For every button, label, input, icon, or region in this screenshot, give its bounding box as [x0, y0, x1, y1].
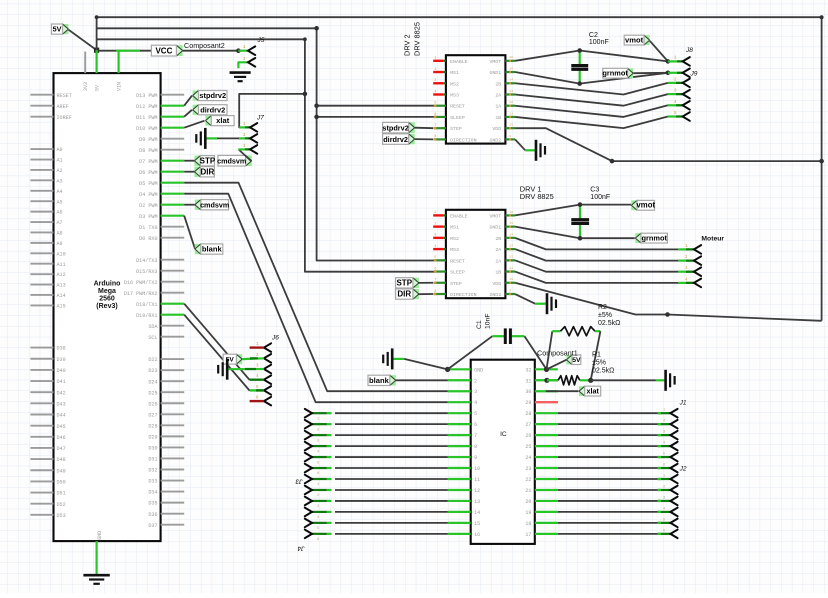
- svg-text:SDA: SDA: [148, 324, 158, 330]
- net label dirdrv2 at DRV2 DIRECTION: [383, 134, 434, 145]
- svg-text:MS2: MS2: [450, 236, 459, 242]
- svg-text:±5%: ±5%: [598, 312, 612, 319]
- text J1: [679, 400, 687, 407]
- svg-text:10: 10: [509, 124, 513, 127]
- net label cmdsvm (J7 pin3 side): [217, 149, 252, 166]
- wire D18 to J6 pin4: [184, 304, 249, 380]
- net label cmdsvm (D2): [184, 200, 229, 210]
- svg-text:SLEEP: SLEEP: [450, 270, 465, 276]
- svg-text:C1: C1: [476, 320, 483, 329]
- svg-text:D49: D49: [57, 468, 66, 474]
- text J5: [257, 37, 265, 44]
- svg-text:Arduino: Arduino: [94, 281, 121, 288]
- supply label 5V Composant1: [547, 355, 582, 370]
- svg-text:10: 10: [509, 278, 513, 281]
- svg-text:12: 12: [509, 101, 513, 104]
- svg-text:D22: D22: [148, 357, 157, 363]
- Arduino top pins 3V3 / 5V / VIN: [83, 50, 122, 91]
- svg-text:grnmot: grnmot: [641, 234, 667, 243]
- IC right pin stubs: [535, 369, 558, 534]
- svg-text:VMOT: VMOT: [489, 59, 501, 65]
- svg-text:A6: A6: [57, 210, 63, 216]
- IC DRV 1 (DRV8825): [433, 185, 554, 299]
- svg-text:3: 3: [434, 233, 436, 237]
- svg-text:2A: 2A: [495, 247, 501, 253]
- svg-text:11: 11: [474, 477, 480, 483]
- svg-text:D5 PWM: D5 PWM: [139, 181, 157, 187]
- wire DRV2 VDD to right rail: [515, 128, 824, 163]
- svg-text:DRV 2: DRV 2: [403, 34, 412, 56]
- svg-text:14: 14: [509, 79, 513, 82]
- svg-text:J1: J1: [679, 400, 687, 407]
- svg-text:xlat: xlat: [216, 116, 230, 125]
- svg-text:22: 22: [525, 477, 531, 483]
- Arduino bottom pin GND + wire: [97, 531, 103, 575]
- svg-text:DIR: DIR: [201, 167, 215, 176]
- svg-text:9: 9: [509, 289, 511, 292]
- J6 pin6 stub (unconnected): [250, 400, 264, 402]
- svg-text:stpdrv2: stpdrv2: [382, 123, 408, 132]
- svg-text:7: 7: [434, 123, 436, 127]
- ground right of R1: [666, 370, 675, 391]
- text R2 value: [598, 304, 620, 327]
- svg-text:D19/RX1: D19/RX1: [136, 313, 157, 319]
- svg-text:D46: D46: [57, 435, 66, 441]
- svg-text:1A: 1A: [495, 104, 501, 110]
- supply label vmot (top): [624, 35, 668, 61]
- text J7: [256, 115, 264, 122]
- svg-text:2A: 2A: [495, 92, 501, 98]
- svg-text:D36: D36: [148, 512, 157, 518]
- connector J5 pin 1: [238, 46, 255, 55]
- supply label 5V at J6 pin2: [223, 354, 264, 364]
- ground DRV2 GND2: [536, 140, 545, 161]
- svg-text:D39: D39: [57, 357, 66, 363]
- svg-text:D7 PWM: D7 PWM: [139, 159, 157, 165]
- svg-text:02.5kΩ: 02.5kΩ: [592, 368, 614, 375]
- svg-text:100nF: 100nF: [589, 39, 609, 46]
- svg-text:A9: A9: [57, 241, 63, 247]
- text J8: [685, 47, 693, 54]
- svg-text:grnmot: grnmot: [602, 69, 628, 78]
- svg-text:D32: D32: [148, 468, 157, 474]
- svg-text:1: 1: [434, 210, 436, 214]
- svg-text:RESET: RESET: [450, 104, 465, 110]
- net label STP at DRV1 STEP: [396, 278, 434, 288]
- wires DRV1 2B 2A 1A 1B to Moteur: [515, 238, 701, 287]
- IC Arduino Mega 2560 box: [54, 73, 161, 541]
- connector J8 pin: [668, 57, 690, 66]
- svg-text:VDD: VDD: [492, 281, 501, 287]
- svg-text:D40: D40: [57, 368, 66, 374]
- wire DRV2 GND2 to ground: [515, 139, 535, 150]
- svg-text:5: 5: [434, 255, 436, 259]
- net label blank at IC pin2: [368, 375, 448, 385]
- svg-text:D15/RX3: D15/RX3: [136, 269, 157, 275]
- svg-text:GND: GND: [474, 367, 483, 373]
- net label STP (D7): [184, 156, 216, 166]
- svg-text:15: 15: [509, 222, 513, 225]
- ground at J7 pin2: [196, 128, 205, 149]
- supply label vmot (DRV1): [631, 200, 655, 210]
- text R1 value: [592, 352, 614, 375]
- svg-text:J5: J5: [257, 37, 265, 44]
- svg-text:C3: C3: [590, 187, 599, 194]
- svg-text:20: 20: [525, 499, 531, 505]
- svg-text:31: 31: [525, 378, 531, 384]
- svg-text:GND2: GND2: [489, 137, 501, 143]
- svg-text:D28: D28: [148, 423, 157, 429]
- svg-text:2: 2: [434, 221, 436, 225]
- svg-text:5: 5: [434, 101, 436, 105]
- svg-text:MS3: MS3: [450, 247, 459, 253]
- connectors J1 and J2 pins (IC pins 28..17): [558, 409, 678, 538]
- svg-text:4: 4: [434, 244, 436, 248]
- IC DRV 2 (DRV8825): [403, 22, 516, 144]
- wire D19 to J6 pin5: [184, 315, 249, 391]
- wire D5 to IC pin3: [184, 183, 448, 392]
- wire net line2 (to DRV resets): [97, 28, 436, 260]
- ground at J6 pin3: [218, 359, 264, 380]
- node 5V junction: [94, 48, 99, 53]
- node IC GND junction: [445, 367, 450, 372]
- svg-text:IC: IC: [500, 431, 507, 438]
- svg-text:cmdsvm: cmdsvm: [217, 157, 246, 166]
- svg-text:12: 12: [509, 256, 513, 259]
- connector J7 pin1: [239, 123, 257, 132]
- svg-text:stpdrv2: stpdrv2: [199, 91, 226, 100]
- resistor R2 between 5V node and R1 right node: [547, 327, 601, 381]
- node line2 corner dot: [314, 26, 319, 31]
- svg-text:11: 11: [509, 112, 513, 115]
- svg-text:1B: 1B: [495, 115, 501, 121]
- net label stpdrv2 (D12): [184, 91, 227, 106]
- svg-text:DRV 8825: DRV 8825: [520, 192, 554, 201]
- svg-text:GND1: GND1: [489, 70, 501, 76]
- svg-text:5: 5: [474, 411, 477, 417]
- svg-text:1B: 1B: [495, 270, 501, 276]
- capacitor C1 10nF: [448, 314, 547, 370]
- svg-text:DRV 8825: DRV 8825: [413, 22, 422, 56]
- svg-text:D37: D37: [148, 523, 157, 529]
- net label grnmot (DRV1): [635, 233, 667, 243]
- Arduino right pins D13..D0, D14..SCL, D22..D37: [124, 93, 184, 529]
- svg-text:100nF: 100nF: [590, 194, 610, 201]
- svg-text:D24: D24: [148, 379, 157, 385]
- svg-text:D34: D34: [148, 490, 157, 496]
- svg-text:D31: D31: [148, 457, 157, 463]
- wire DRV2 VMOT - C2 top - J8: [515, 51, 668, 62]
- svg-text:D12 PWM: D12 PWM: [136, 104, 157, 110]
- svg-text:5V: 5V: [53, 25, 62, 34]
- svg-text:SCL: SCL: [148, 335, 157, 341]
- ground below Arduino: [83, 575, 109, 584]
- svg-text:6: 6: [434, 266, 436, 270]
- svg-text:28: 28: [525, 411, 531, 417]
- svg-text:D33: D33: [148, 479, 157, 485]
- wires DRV2 2B 2A 1A 1B to J9 pins: [515, 78, 690, 128]
- svg-text:A12: A12: [57, 272, 66, 278]
- net label grnmot (top): [602, 68, 668, 78]
- svg-text:±5%: ±5%: [592, 360, 606, 367]
- svg-text:R2: R2: [598, 304, 607, 311]
- svg-text:MS3: MS3: [450, 92, 459, 98]
- svg-text:6: 6: [434, 112, 436, 116]
- svg-text:8: 8: [434, 134, 436, 138]
- svg-text:3V3: 3V3: [83, 82, 89, 91]
- wire DRV1 VDD to right rail: [515, 283, 822, 321]
- svg-text:J8: J8: [685, 47, 693, 54]
- svg-text:blank: blank: [369, 376, 390, 385]
- svg-text:D18/TX1: D18/TX1: [136, 302, 157, 308]
- svg-text:D48: D48: [57, 457, 66, 463]
- svg-text:A15: A15: [57, 304, 66, 310]
- svg-text:8: 8: [434, 289, 436, 293]
- svg-text:Composant1: Composant1: [537, 349, 578, 358]
- svg-text:STP: STP: [396, 279, 412, 288]
- svg-text:D25: D25: [148, 390, 157, 396]
- capacitor C2 100nF: [571, 32, 608, 86]
- svg-text:11: 11: [509, 267, 513, 270]
- svg-text:J7: J7: [256, 115, 264, 122]
- ground left of C1: [383, 348, 392, 369]
- svg-text:A7: A7: [57, 220, 63, 226]
- svg-text:30: 30: [525, 389, 531, 395]
- wire DRV1 GND2 to ground: [515, 294, 546, 304]
- svg-text:VMOT: VMOT: [489, 213, 501, 219]
- svg-text:D4 PWM: D4 PWM: [139, 192, 157, 198]
- svg-text:D27: D27: [148, 412, 157, 418]
- svg-text:D50: D50: [57, 480, 66, 486]
- node top-right corner: [820, 15, 824, 19]
- svg-text:2B: 2B: [495, 81, 501, 87]
- connector J5 pin 2: [238, 58, 255, 68]
- svg-text:9: 9: [509, 135, 511, 138]
- svg-text:J9: J9: [690, 71, 698, 78]
- svg-text:6: 6: [474, 422, 477, 428]
- svg-text:4: 4: [474, 400, 477, 406]
- svg-text:D42: D42: [57, 390, 66, 396]
- svg-text:ENABLE: ENABLE: [450, 59, 468, 65]
- svg-text:D13 PWM: D13 PWM: [136, 93, 157, 99]
- svg-text:1A: 1A: [495, 258, 501, 264]
- net label dirdrv2 (D11): [184, 105, 227, 117]
- svg-text:17: 17: [525, 532, 531, 538]
- net label DIR at DRV1 DIRECTION: [396, 289, 434, 299]
- svg-text:A8: A8: [57, 231, 63, 237]
- svg-text:16: 16: [509, 211, 513, 214]
- svg-text:26: 26: [525, 433, 531, 439]
- svg-text:MS1: MS1: [450, 70, 459, 76]
- connector J7 pin2 + wire to ground: [206, 134, 257, 143]
- node J9 junction: [666, 71, 671, 76]
- svg-text:Composant2: Composant2: [184, 41, 225, 50]
- svg-text:MS1: MS1: [450, 225, 459, 231]
- svg-text:23: 23: [525, 466, 531, 472]
- svg-text:D9 PWM: D9 PWM: [139, 137, 157, 143]
- svg-text:3: 3: [434, 78, 436, 82]
- svg-text:A4: A4: [57, 189, 63, 195]
- wire DRV2 GND1 - C2 bottom - J9 pin1: [515, 72, 668, 84]
- svg-text:D2 PWM: D2 PWM: [139, 203, 157, 209]
- IC left pin stubs: [448, 369, 471, 534]
- svg-text:16: 16: [509, 56, 513, 59]
- svg-text:4: 4: [434, 89, 436, 93]
- svg-text:MS2: MS2: [450, 81, 459, 87]
- svg-text:R1: R1: [592, 352, 601, 359]
- svg-text:2: 2: [474, 378, 477, 384]
- svg-text:(Rev3): (Rev3): [96, 303, 117, 310]
- svg-text:10nF: 10nF: [485, 314, 492, 330]
- text J3 (rotated): [295, 478, 303, 485]
- svg-text:RESET: RESET: [57, 93, 72, 99]
- svg-text:D51: D51: [57, 491, 66, 497]
- svg-text:5V: 5V: [95, 85, 101, 91]
- J6 pin1 stub (unconnected): [250, 346, 264, 348]
- svg-text:blank: blank: [202, 245, 223, 254]
- svg-text:J6: J6: [271, 335, 279, 342]
- svg-text:13: 13: [474, 499, 480, 505]
- connector J9 pin1: [668, 69, 690, 78]
- connectors J3 and J4 pins (IC pins 5..16): [305, 409, 448, 542]
- svg-text:2560: 2560: [99, 296, 115, 303]
- net label DIR (D6): [184, 167, 214, 177]
- svg-text:A2: A2: [57, 168, 63, 174]
- svg-text:DIRECTION: DIRECTION: [450, 292, 476, 298]
- svg-text:8: 8: [474, 444, 477, 450]
- svg-text:RESET: RESET: [450, 258, 465, 264]
- svg-text:Mega: Mega: [98, 288, 116, 295]
- svg-text:xlat: xlat: [587, 387, 600, 396]
- svg-text:D3 PWM: D3 PWM: [139, 214, 157, 220]
- svg-text:Moteur: Moteur: [701, 236, 724, 243]
- svg-text:D43: D43: [57, 401, 66, 407]
- svg-text:D8 PWM: D8 PWM: [139, 148, 157, 154]
- IC shift-register box: [471, 360, 535, 544]
- svg-text:dirdrv2: dirdrv2: [200, 105, 225, 114]
- svg-text:A3: A3: [57, 178, 63, 184]
- svg-text:D53: D53: [57, 513, 66, 519]
- svg-text:GND1: GND1: [489, 225, 501, 231]
- wire R1 node to ground: [591, 379, 665, 381]
- wire J7 pin1 branch: [239, 92, 307, 128]
- text J9: [690, 71, 698, 78]
- svg-text:DIR: DIR: [397, 290, 411, 299]
- svg-text:2B: 2B: [495, 236, 501, 242]
- supply VCC label Composant2: [151, 45, 182, 56]
- svg-text:D23: D23: [148, 368, 157, 374]
- svg-text:STEP: STEP: [450, 281, 462, 287]
- wire DRV1 GND1 - C3 bottom - grnmot: [515, 227, 635, 239]
- wire DRV2 RESET from vertical: [314, 103, 435, 108]
- svg-text:12: 12: [474, 488, 480, 494]
- svg-text:18: 18: [525, 521, 531, 527]
- wire DRV2 SLEEP from vertical: [314, 115, 435, 120]
- node junction at J5: [236, 48, 241, 53]
- svg-text:1: 1: [434, 56, 436, 60]
- svg-text:16: 16: [474, 532, 480, 538]
- svg-text:VIN: VIN: [117, 82, 123, 91]
- svg-text:02.5kΩ: 02.5kΩ: [598, 320, 620, 327]
- svg-text:cmdsvm: cmdsvm: [200, 200, 229, 209]
- svg-text:D26: D26: [148, 401, 157, 407]
- svg-text:J2: J2: [679, 466, 687, 473]
- svg-text:D45: D45: [57, 424, 66, 430]
- node IC pin32 junction: [544, 367, 549, 372]
- J6 pin4 stub: [250, 379, 264, 381]
- svg-text:vmot: vmot: [625, 36, 644, 45]
- svg-text:D41: D41: [57, 379, 66, 385]
- svg-text:9: 9: [474, 455, 477, 461]
- svg-text:D44: D44: [57, 413, 66, 419]
- svg-text:15: 15: [509, 67, 513, 70]
- svg-text:14: 14: [509, 233, 513, 236]
- svg-text:dirdrv2: dirdrv2: [383, 135, 408, 144]
- svg-text:13: 13: [509, 90, 513, 93]
- connector J7 pin3: [239, 145, 258, 154]
- svg-text:24: 24: [525, 455, 531, 461]
- wire net line3 (to DRV1 sleep / J7): [97, 37, 436, 271]
- svg-text:21: 21: [525, 488, 531, 494]
- svg-text:13: 13: [509, 244, 513, 247]
- svg-text:VCC: VCC: [155, 47, 172, 56]
- svg-text:D11 PWM: D11 PWM: [136, 115, 157, 121]
- J6 pin5 stub: [250, 389, 264, 391]
- svg-text:D1 TX0: D1 TX0: [139, 225, 157, 231]
- svg-text:A13: A13: [57, 283, 66, 289]
- svg-text:7: 7: [434, 278, 436, 282]
- svg-text:D16 PWM/TX2: D16 PWM/TX2: [124, 280, 158, 286]
- svg-text:D47: D47: [57, 446, 66, 452]
- ground DRV1 GND2: [547, 293, 556, 314]
- svg-text:D38: D38: [57, 346, 66, 352]
- svg-text:D35: D35: [148, 501, 157, 507]
- svg-text:29: 29: [525, 400, 531, 406]
- resistor R1 on pin31 net: [547, 376, 591, 385]
- svg-text:2: 2: [434, 67, 436, 71]
- svg-text:J4: J4: [297, 545, 305, 552]
- text J6: [271, 335, 279, 342]
- svg-text:A14: A14: [57, 293, 66, 299]
- svg-text:IOREF: IOREF: [57, 115, 72, 121]
- svg-text:D10 PWM: D10 PWM: [136, 126, 157, 132]
- svg-text:GND: GND: [97, 531, 103, 540]
- svg-text:19: 19: [525, 510, 531, 516]
- connector J6 pins: [256, 343, 271, 405]
- wire VCC rail y=50.7: [97, 50, 239, 52]
- svg-text:D6 PWM: D6 PWM: [139, 170, 157, 176]
- svg-text:7: 7: [474, 433, 477, 439]
- svg-text:A10: A10: [57, 251, 66, 257]
- svg-text:VDD: VDD: [492, 126, 501, 132]
- svg-text:SLEEP: SLEEP: [450, 115, 465, 121]
- svg-text:STP: STP: [200, 156, 216, 165]
- node IC pin31 junction: [544, 378, 549, 383]
- svg-text:32: 32: [525, 367, 531, 373]
- svg-text:STEP: STEP: [450, 126, 462, 132]
- svg-text:3: 3: [474, 389, 477, 395]
- svg-text:AREF: AREF: [57, 104, 69, 110]
- svg-text:GND2: GND2: [489, 292, 501, 298]
- svg-text:vmot: vmot: [636, 201, 655, 210]
- net label xlat (D10): [184, 116, 234, 128]
- text Composant1: [537, 349, 578, 358]
- svg-text:D17 PWM/RX2: D17 PWM/RX2: [124, 291, 158, 297]
- wire 5V to junction: [69, 30, 97, 50]
- svg-text:D0 RX0: D0 RX0: [139, 236, 157, 242]
- svg-text:5V: 5V: [572, 357, 581, 364]
- net label blank (D3): [184, 216, 223, 255]
